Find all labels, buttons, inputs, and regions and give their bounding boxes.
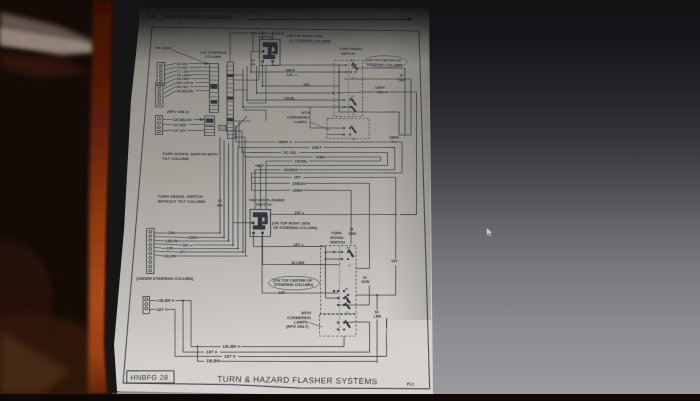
header rule arrowhead: [408, 18, 412, 21]
connector pin cavity l1: [158, 89, 161, 91]
wire pin 24 LBU a: [164, 63, 176, 65]
svg-text:OF STEERING COLUMN): OF STEERING COLUMN): [273, 226, 317, 230]
column connector dark cell2: [211, 100, 217, 104]
wire 18T* branch drop: [180, 301, 186, 352]
wire mesh v266: [265, 66, 267, 103]
wire S2 row293 inner: [321, 292, 338, 294]
wire busdeep1 run b: [306, 182, 369, 185]
svg-text:L7: L7: [348, 265, 352, 267]
note oval on top center S2: [268, 276, 319, 290]
harness connector rung 0: [227, 65, 234, 67]
wire busout1 run b: [323, 147, 394, 148]
wire busdeep0 run a: [252, 176, 292, 179]
column connector rung 1: [210, 71, 219, 73]
svg-text:WH: WH: [351, 60, 355, 62]
connector lower pin 1: [149, 235, 152, 238]
svg-text:18LBN ●: 18LBN ●: [222, 344, 240, 349]
cornering lamps dashed box S2: [319, 315, 356, 337]
svg-text:18 LBN: 18 LBN: [291, 261, 305, 265]
connector pin cavity l2: [158, 92, 161, 94]
wire S2 inner drop ext: [325, 247, 327, 253]
wire 18DGN continue: [368, 286, 370, 306]
connector lower pin 8: [149, 265, 152, 268]
S1 contact dot B: [349, 106, 351, 108]
wire interlink x245.5: [242, 155, 250, 256]
harness connector rung 6: [227, 91, 234, 93]
S2 contact dot A: [351, 255, 353, 257]
wire lpin 18M a: [154, 232, 168, 234]
leader cornering lamps S2: [308, 322, 322, 327]
S1 wiper arm a2: [352, 64, 357, 67]
wire row 18U: [263, 85, 339, 87]
hazard flasher U1 symbol hook: [272, 45, 277, 54]
wire pin D8 (B)LBN a: [164, 91, 176, 98]
S1 contact dot: [345, 64, 347, 66]
wire pin C8 LGNH a: [164, 75, 176, 80]
wire right bus C: [413, 92, 420, 215]
svg-text:H-M-P-B WIRING DIAGRAMS: H-M-P-B WIRING DIAGRAMS: [163, 14, 232, 21]
wire busout3 feed stub: [244, 137, 246, 157]
connector small outline: [142, 297, 151, 314]
wire lpin 18Y * a: [154, 244, 183, 245]
S2 contact dot B: [343, 297, 345, 299]
wire 18T V a: [149, 309, 156, 311]
svg-text:L2: L2: [352, 139, 356, 141]
wire bottom1 run b: [220, 351, 369, 353]
wire pin 24 LBU b: [189, 62, 209, 65]
wire 18T V b: [168, 308, 175, 310]
wire vert x247: [246, 66, 249, 100]
S1 cornering contact dot: [343, 127, 345, 129]
harness connector rung 13: [227, 122, 233, 124]
wire 18LBN* drop: [188, 301, 193, 347]
wire rpo C28 (M)LGN a: [162, 118, 172, 120]
hazard flasher U2 symbol bottom bar: [253, 225, 265, 229]
svg-text:C28 (M)LGN: C28 (M)LGN: [172, 118, 191, 122]
wire lpin 18BN a: [154, 236, 188, 239]
wire mesh horiz 110: [243, 109, 266, 111]
connector lower pin 5: [149, 252, 152, 255]
turn signal switch S1 dashed box: [334, 60, 363, 117]
wire U2 drop b2: [262, 234, 264, 265]
svg-text:PN 33641: PN 33641: [155, 46, 172, 50]
wire S2 inner row 298: [326, 297, 339, 299]
wire S1 right y92: [363, 91, 417, 92]
S2 cornering wiper: [345, 321, 350, 328]
wire rpo C23 (M)T a: [163, 123, 172, 125]
wire rpo C23 (M)T b: [189, 123, 204, 125]
svg-text:18: 18: [399, 74, 403, 78]
wire busret1 run a: [266, 164, 387, 166]
rpo pin cavity 1: [158, 122, 161, 124]
hazard flasher U2 symbol hook: [262, 215, 267, 224]
wire row y65: [273, 64, 347, 66]
svg-text:18BN/: 18BN/: [375, 86, 385, 90]
dark left foreground base: [0, 0, 112, 394]
leader cornering lamps: [310, 122, 330, 130]
wire bottom0 run b: [241, 345, 344, 347]
rpo mating rung a: [204, 118, 214, 120]
wire busout2 run a: [242, 151, 281, 154]
wire busout3 feed horiz: [234, 136, 245, 138]
wire busdeep2 run a: [252, 189, 290, 192]
junction 18LBN at row 295: [376, 294, 378, 296]
wire lpin 18BGN b: [175, 240, 228, 242]
wire lpin 18P b: [172, 247, 238, 249]
hazard flasher U2 pin left: [252, 222, 255, 225]
column connector dark cell: [210, 84, 217, 89]
wire cornering row2: [327, 133, 344, 135]
wire busdeep1 drop: [369, 183, 370, 268]
leader from PN 33641: [171, 50, 206, 63]
hazard flasher U1 pin left: [262, 50, 265, 52]
S2 contact dot A: [341, 258, 343, 260]
wire interlink x220: [215, 137, 224, 233]
wire rpo C28 (M)LGN b: [194, 118, 204, 120]
wire busret3 run: [252, 172, 403, 174]
wire mesh horiz 121b: [239, 120, 251, 122]
wire lpin 18P a: [154, 247, 167, 248]
wire U2 left pin: [233, 222, 252, 224]
harness foot rung: [228, 133, 236, 135]
turn signal switch S2 centerline: [338, 247, 340, 333]
svg-text:TURN SIGNAL SWITCH WITH: TURN SIGNAL SWITCH WITH: [162, 152, 218, 157]
svg-text:18BU/: 18BU/: [285, 68, 295, 72]
wire U2 row 18Y: [270, 214, 397, 215]
wire busdeep2 drop: [350, 190, 352, 243]
svg-text:(RPO ONLY): (RPO ONLY): [286, 325, 309, 330]
wire mesh drop 266: [265, 110, 268, 121]
wire U2 drop b1: [252, 234, 255, 246]
header rule: [248, 17, 408, 22]
wire U2 row 18Y2: [254, 245, 321, 248]
wire right bus B: [410, 79, 413, 135]
wire busout1 drop: [393, 148, 396, 170]
hazard flasher U1 symbol stem: [268, 44, 272, 56]
hazard flasher U1 symbol top bar: [263, 42, 277, 47]
wire row y93: [257, 92, 334, 94]
arrow into column connector: [205, 62, 209, 64]
wire top left bus drop: [229, 33, 232, 62]
wire bottom2 rise: [368, 322, 370, 352]
svg-text:18Y ●: 18Y ●: [294, 211, 304, 215]
harness connector rung 9: [227, 105, 233, 107]
S2 contact dot B: [347, 300, 349, 302]
wire S1 inner y112: [339, 111, 363, 114]
S2 contact dot B: [337, 290, 339, 292]
junction lower row: [223, 237, 225, 239]
connector ring upper outline: [155, 62, 166, 85]
wire interlink x228.5: [224, 143, 233, 241]
hazard flasher U2 pin b1: [252, 232, 255, 235]
svg-text:SWITCH: SWITCH: [341, 52, 355, 56]
hazard flasher U1 symbol bottom bar: [263, 55, 275, 59]
junction y107: [242, 106, 244, 108]
svg-text:18DBL: 18DBL: [284, 96, 295, 100]
S1 contact dot B: [354, 103, 356, 105]
wire rpo C27 18Y a: [163, 129, 172, 131]
rpo mating connector upper: [204, 116, 215, 125]
svg-text:18T V: 18T V: [224, 354, 236, 359]
S2 contact dot A: [347, 251, 349, 253]
wire busout2 feed stub: [241, 131, 243, 153]
wire busout2 drop: [386, 152, 388, 165]
wire lpin 18LBN b: [174, 255, 248, 257]
wire busout0 run a: [236, 141, 275, 144]
wire interlink x238: [234, 146, 243, 249]
wire pin 24 LBU a: [164, 67, 176, 70]
S1 cornering contact dot: [349, 127, 351, 129]
svg-text:18 LBL: 18 LBL: [283, 151, 298, 155]
svg-text:18GBN: 18GBN: [283, 168, 297, 172]
svg-text:SWITCH: SWITCH: [330, 240, 346, 244]
svg-text:18T V: 18T V: [156, 307, 168, 312]
connector pin cavity l5: [158, 103, 161, 105]
S1 wiper arm b2: [351, 106, 356, 112]
connector lower pin 2: [149, 239, 152, 242]
S1 contact dot: [355, 71, 357, 73]
wire mesh h90: [233, 89, 247, 91]
hazard flasher switch U1 box: [259, 39, 281, 66]
wire busdeep0 run b: [303, 177, 396, 178]
connector pin cavity u1: [159, 68, 162, 70]
S2 cornering contact dot: [337, 328, 339, 330]
cornering lamps dashed box S1: [327, 118, 369, 139]
S2 cornering contact dot: [337, 321, 339, 323]
wire U2 row 18LBN: [263, 263, 321, 265]
harness connector rung 4: [227, 83, 234, 85]
connector pin cavity u2: [159, 71, 162, 73]
wire lpin 18BN b: [196, 236, 224, 238]
connector pin cavity u3: [159, 75, 162, 77]
svg-text:COLUMN: COLUMN: [205, 55, 222, 59]
wire busout0 run b: [294, 141, 402, 143]
svg-text:18Y ●: 18Y ●: [294, 243, 304, 247]
svg-text:LBL ●: LBL ●: [377, 90, 387, 94]
connector pin cavity u0: [159, 64, 162, 66]
S2 contact dot B: [337, 304, 339, 306]
S2 contact dot B: [343, 290, 345, 292]
column connector rung 9: [210, 104, 219, 106]
S2 wiper b2: [345, 303, 350, 309]
wire hazard left pin: [251, 50, 259, 52]
S2 contact dot B: [343, 304, 345, 306]
wire lpin 18T a: [154, 251, 179, 252]
svg-text:(UNDER STEERING COLUMN): (UNDER STEERING COLUMN): [136, 277, 193, 282]
harness connector dark cell: [227, 97, 233, 100]
wire S2 inner row 252: [326, 251, 343, 253]
svg-text:9-28: 9-28: [147, 14, 158, 20]
wire row 214.5 right join: [400, 213, 416, 215]
wire S1 inner y92: [333, 92, 362, 94]
column connector rung 10: [209, 108, 218, 110]
connector lower pin 3: [149, 243, 152, 246]
wire busret3 drop: [251, 173, 252, 190]
wire lpin 18T b: [185, 251, 243, 253]
rpo side tab rung: [219, 127, 226, 129]
wire pin D8 TN1 b: [189, 85, 209, 88]
S1 contact dot: [338, 71, 340, 73]
harness connector rung 3: [227, 78, 234, 80]
junction 18U: [262, 85, 264, 87]
svg-text:RT: RT: [347, 247, 351, 249]
wire bottom2 row 322: [356, 321, 369, 323]
S1 cornering contact dot: [349, 134, 351, 136]
svg-text:18BAN: 18BAN: [292, 181, 306, 185]
orange out-of-focus object left: [88, 0, 119, 394]
column connector rung 3: [210, 79, 219, 81]
junction lower row: [242, 251, 244, 253]
wire busret0 drop: [265, 161, 268, 209]
connector pin cavity l4: [158, 99, 161, 101]
wire pin D22 LPP B b: [195, 81, 209, 83]
svg-text:STEERING COLUMN): STEERING COLUMN): [367, 63, 402, 67]
turn signal switch S1 inner bus: [338, 64, 340, 112]
column connector rung 4: [210, 83, 219, 85]
wire 18T vert resume: [395, 266, 396, 296]
wire S1 inner y68: [352, 67, 363, 69]
S1 contact dot B: [332, 92, 334, 94]
svg-text:SWITCH: SWITCH: [258, 35, 273, 39]
wire bottom2 run a: [175, 355, 222, 357]
wire 18BU/LBL vert: [271, 63, 273, 65]
wire busret2 drop: [254, 170, 257, 210]
S1 contact dot: [350, 71, 352, 73]
wire row y107: [243, 106, 350, 108]
wire mesh v247b: [246, 90, 248, 95]
wire 18U vert: [262, 63, 264, 86]
svg-text:18LBN: 18LBN: [164, 254, 175, 258]
wire busret0 run a: [309, 160, 381, 161]
wire pin C7 LGN b: [189, 70, 209, 73]
hazard flasher U1 pin b1: [261, 60, 264, 62]
svg-text:18BN ●: 18BN ●: [277, 140, 291, 144]
S2 wiper a: [349, 250, 354, 258]
wire pin C7 LGN a: [164, 71, 176, 75]
S2 wiper b: [345, 296, 350, 303]
svg-text:(RPO ONLY): (RPO ONLY): [167, 110, 189, 114]
svg-text:18BN: 18BN: [292, 188, 303, 192]
S1 contact dot B: [338, 92, 340, 94]
wire rpo C27 18Y b: [187, 129, 204, 131]
note oval on top center: [364, 55, 407, 67]
harness connector foot: [227, 131, 236, 139]
harness connector rung 8: [227, 100, 233, 102]
wire vert x243: [241, 69, 244, 107]
connector small pin 2: [145, 307, 148, 310]
wire mesh v259: [258, 66, 261, 80]
wire mesh h75: [234, 74, 243, 76]
turn signal switch S1 centerline: [347, 62, 349, 116]
wire busret0 run b: [266, 160, 292, 162]
wire interlink x243b: [239, 149, 247, 252]
S1 wiper arm b: [351, 98, 356, 105]
wire pin D8 (B)LBN b: [195, 90, 209, 92]
S2 cornering contact dot: [343, 321, 345, 323]
svg-text:SWITCH: SWITCH: [256, 202, 272, 206]
wire row 268.5 to S2: [356, 268, 369, 270]
wire top drop a: [261, 31, 264, 40]
wire S2 cornering row inner: [344, 321, 356, 324]
wire 18T V drop: [172, 310, 178, 357]
rpo mating rung b: [205, 121, 215, 123]
rpo pin cavity 2: [158, 126, 161, 128]
svg-text:18T: 18T: [179, 250, 186, 254]
S1 contact dot B: [343, 106, 345, 108]
S2 contact dot A: [347, 258, 349, 260]
wire 18T mid vert: [260, 236, 264, 293]
column connector rung 5: [210, 87, 219, 89]
wire busret1 drop: [259, 165, 262, 209]
screen-gray strip below page bottom-left: [117, 392, 258, 395]
svg-text:OF STEERING COLUMN): OF STEERING COLUMN): [289, 39, 330, 43]
wire lpin 18LBN a: [154, 255, 164, 256]
harness connector rung 2: [227, 74, 234, 76]
wire bottom2 run b: [238, 355, 387, 357]
wire right bus D: [398, 112, 401, 135]
wire mesh diagonal: [234, 116, 247, 130]
hazard flasher U2 pin b2: [261, 231, 264, 234]
wire bottom3 run b: [220, 360, 377, 363]
wire 18LBN drop: [376, 295, 378, 309]
svg-text:C27 18Y: C27 18Y: [172, 129, 185, 133]
wire bottom3 rise: [386, 318, 387, 356]
junction y72: [250, 71, 252, 73]
arrow into rpo connector: [200, 118, 204, 120]
wire busret2 run b: [255, 169, 281, 171]
rpo pin cavity 0: [158, 117, 161, 119]
svg-text:18T: 18T: [391, 259, 399, 263]
wire right bus A: [403, 68, 406, 135]
connector pin cavity u4: [159, 78, 162, 80]
wire 16RD vert: [250, 52, 252, 72]
junction lower row: [237, 248, 239, 250]
rpo connector outline: [154, 115, 164, 134]
harness connector rung 12: [227, 118, 233, 120]
wire 18LBN* a: [150, 300, 157, 302]
wire S2 inner row 305 b: [340, 304, 356, 306]
harness connector rung 11: [227, 113, 233, 115]
wire S1 inner y79: [344, 78, 363, 81]
S2 inner junction 259: [325, 258, 327, 260]
faint red-brown furniture shadows bottom left: [0, 313, 113, 401]
harness connector dark cell: [227, 118, 233, 121]
wire bottom1 rise: [343, 336, 345, 347]
svg-text:18Y ●: 18Y ●: [182, 243, 192, 247]
diagram border bottom: [123, 382, 430, 390]
wire pin D8 CBN b: [189, 77, 209, 80]
svg-text:WITHOUT TILT COLUMN: WITHOUT TILT COLUMN: [157, 199, 205, 204]
turn signal switch S2 inner bus: [324, 252, 327, 298]
wire mesh h80: [234, 79, 259, 82]
connector small pin 0: [145, 298, 148, 301]
wire interlink x233: [228, 131, 238, 245]
S1 contact dot: [345, 71, 347, 73]
connector pin cavity l0: [158, 85, 161, 87]
wire busret1 run b: [255, 164, 261, 166]
S2 contact dot B: [347, 294, 349, 296]
wire busout0 feed horiz: [234, 125, 237, 127]
wire mesh h103: [247, 102, 266, 104]
connector lower pin 0: [149, 230, 152, 233]
harness connector body: [224, 62, 237, 131]
diagram border top: [152, 27, 419, 31]
wire row 18DBL: [247, 99, 344, 101]
rpo mating connector lower: [204, 126, 215, 135]
wire busout3 run b: [327, 156, 381, 159]
S1 cornering wiper: [351, 126, 356, 133]
svg-text:18T: 18T: [294, 175, 302, 179]
